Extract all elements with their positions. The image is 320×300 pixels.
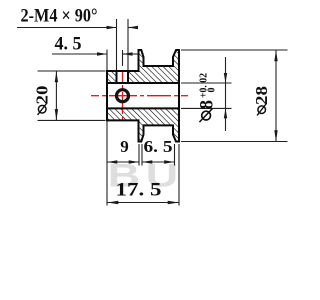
svg-text:17. 5: 17. 5 [116,180,162,201]
svg-text:8: 8 [197,100,218,110]
svg-text:20: 20 [33,86,52,105]
svg-text:4. 5: 4. 5 [55,34,82,55]
svg-text:0: 0 [207,88,218,93]
svg-text:+0. 02: +0. 02 [199,73,210,98]
svg-text:9: 9 [120,137,129,156]
svg-text:2-M4 × 90°: 2-M4 × 90° [21,6,98,27]
svg-text:28: 28 [252,86,271,105]
svg-text:6. 5: 6. 5 [144,137,173,156]
